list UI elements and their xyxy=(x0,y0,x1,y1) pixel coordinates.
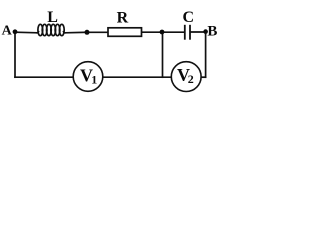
capacitor C xyxy=(185,25,190,40)
junction L-R xyxy=(85,30,90,35)
wire capacitor to B xyxy=(191,31,206,33)
wire left vertical from A xyxy=(14,32,16,77)
wire vertical node RC to bottom xyxy=(162,32,164,77)
resistor R xyxy=(108,28,142,37)
wire right vertical from B xyxy=(205,32,207,77)
wire V1 to V2 xyxy=(103,76,172,78)
wire V2 to B stub xyxy=(201,76,206,78)
junction R-C xyxy=(160,30,165,35)
svg-text:R: R xyxy=(117,9,129,26)
voltmeter V1 xyxy=(73,62,103,92)
svg-text:A: A xyxy=(2,24,13,39)
voltmeter V2 xyxy=(171,62,201,92)
wire node to capacitor xyxy=(162,31,184,33)
inductor L coil xyxy=(36,24,65,35)
svg-text:L: L xyxy=(47,9,58,26)
node A dot xyxy=(13,29,18,34)
wire bottom left to V1 xyxy=(15,76,73,78)
wire resistor to node xyxy=(142,31,162,33)
svg-text:C: C xyxy=(183,9,195,26)
wire A to inductor xyxy=(15,31,37,34)
node B dot xyxy=(203,29,208,34)
wire inductor to node xyxy=(65,31,87,34)
wire node to resistor xyxy=(87,31,108,33)
svg-text:B: B xyxy=(207,24,217,40)
